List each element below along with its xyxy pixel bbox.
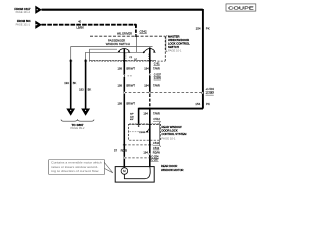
svg-text:DOOR LOCK: DOOR LOCK [162, 129, 178, 133]
svg-text:BR/WT: BR/WT [126, 66, 135, 70]
label REAR DOOR WINDOW MOTOR [161, 164, 184, 172]
label 193 BK wire2 [79, 87, 91, 91]
svg-text:1C: 1C [134, 59, 137, 61]
svg-text:C510: C510 [153, 141, 160, 145]
svg-text:199: 199 [118, 102, 123, 106]
wire left arrow drop 2 [85, 60, 87, 110]
wire feed B corner patch [134, 25, 136, 28]
motor box [115, 167, 154, 183]
wire motor feed left (x=124.3) [123, 49, 125, 92]
rear window control box dashed [129, 124, 161, 140]
rear box internal contact [130, 125, 150, 134]
svg-text:PAGE 10-1: PAGE 10-1 [162, 137, 176, 141]
svg-text:ing to direction of current fl: ing to direction of current flow. [51, 170, 99, 173]
label 57 RD/B bottom row left wire [114, 149, 127, 153]
svg-text:BR/WT: BR/WT [126, 83, 135, 87]
switch internal bus 3 (pin drop) [90, 49, 117, 61]
pin ticks [123, 144, 151, 146]
pivot dot [143, 51, 145, 53]
wire feed B dashed 40 LB/BK [42, 24, 136, 26]
svg-text:REAR DOOR: REAR DOOR [161, 164, 177, 168]
label 154 PK lower [195, 102, 210, 106]
svg-text:C-507: C-507 [154, 72, 162, 76]
brace for master switch text [165, 35, 168, 51]
switch contact arm 1 (left window) [117, 49, 130, 53]
label MASTER WINDOW/DOOR LOCK CONTROL SWITCH [168, 35, 190, 53]
svg-text:194: 194 [143, 150, 148, 154]
svg-text:193: 193 [64, 81, 69, 85]
svg-text:C512: C512 [153, 146, 160, 150]
svg-text:PAGE 99-2: PAGE 99-2 [71, 126, 85, 130]
svg-text:PAGE 10-1: PAGE 10-1 [168, 49, 182, 53]
svg-text:BK: BK [88, 87, 92, 91]
svg-text:57: 57 [114, 149, 117, 153]
svg-text:C512: C512 [153, 117, 160, 121]
svg-text:raises or lowers window accord: raises or lowers window accord- [51, 166, 98, 169]
switch internal bus 2 [86, 52, 144, 60]
node TO S867 label [71, 123, 85, 130]
dashed connector row C-254/C-287 [124, 157, 150, 159]
label 40 LB/BK [76, 20, 84, 30]
svg-text:C-81: C-81 [154, 61, 160, 65]
label 194 RD/W bottom row right wire [143, 150, 160, 154]
svg-text:W/L DRIVER: W/L DRIVER [117, 32, 132, 36]
svg-text:RD/B: RD/B [121, 149, 128, 153]
svg-text:‹C-287: ‹C-287 [150, 158, 159, 162]
svg-text:‹C-504: ‹C-504 [206, 87, 215, 91]
svg-text:PK: PK [206, 26, 210, 30]
svg-text:BR/WT: BR/WT [126, 102, 135, 106]
svg-text:RD/W: RD/W [153, 150, 161, 154]
linkage dashes under arms [125, 53, 127, 59]
wire thick return line [139, 108, 203, 110]
svg-text:194: 194 [144, 83, 149, 87]
brace for rear box text [159, 122, 161, 147]
svg-text:40: 40 [78, 20, 81, 24]
wire feed B turn down [135, 25, 137, 36]
wire feed A horizontal 154 PK [42, 9, 203, 11]
svg-text:PAGE 101-1: PAGE 101-1 [16, 22, 31, 26]
label 194 T/WR row3 [143, 111, 160, 115]
label 194 T/WR row2 [144, 83, 160, 87]
in-line connector hook on right wire + labels C-507 C-570 [149, 72, 162, 80]
brace under arrows [61, 119, 94, 121]
label 199 BR/WT row3 [118, 102, 136, 106]
svg-text:BK: BK [73, 81, 77, 85]
svg-text:CONTROL SYSTEM: CONTROL SYSTEM [162, 132, 188, 136]
note callout box [49, 160, 113, 175]
svg-text:T/WR: T/WR [153, 83, 160, 87]
svg-text:199: 199 [118, 66, 123, 70]
dashed connector line C-504/C-557 [124, 92, 202, 94]
connector dots on dashed line [123, 92, 125, 94]
svg-text:194: 194 [143, 111, 148, 115]
switch box dashed outline (passenger window switch / master) [90, 36, 165, 61]
label 199 BR/WT row1 [118, 66, 136, 70]
connector C542 label [140, 29, 148, 33]
svg-text:193: 193 [79, 87, 84, 91]
svg-text:Contains a reversible motor wh: Contains a reversible motor which [51, 162, 102, 165]
wire left arrow drop 1 [70, 60, 72, 110]
switch internal bus 1 [71, 47, 153, 60]
svg-text:154: 154 [195, 102, 200, 106]
label 199 BR/WT row2 [118, 83, 136, 87]
pin ticks at box edges [69, 36, 151, 124]
tiny stacked note left of stub [130, 114, 134, 122]
svg-text:C2069: C2069 [139, 132, 146, 134]
label 194 T/WR row1 [144, 66, 160, 70]
svg-text:REAR WINDOW: REAR WINDOW [162, 125, 182, 129]
label REAR WINDOW DOOR LOCK CONTROL SYSTEM [162, 125, 188, 141]
wire stub down from return corner [138, 108, 140, 125]
switch feed drop from C542 pin [135, 36, 137, 52]
svg-text:COUPE: COUPE [228, 6, 254, 11]
svg-text:S/P: S/P [130, 114, 134, 116]
COUPE box [226, 4, 256, 11]
svg-text:T/WR: T/WR [153, 111, 160, 115]
connector arrow B (dashed feed) [35, 21, 42, 29]
switch contact arm 2 (right window) [144, 49, 156, 53]
svg-text:SWITCH: SWITCH [168, 45, 179, 49]
wire motor feed right (x=149.8) [149, 47, 151, 91]
connector arrow A (solid feed) [35, 6, 42, 14]
svg-text:199: 199 [118, 83, 123, 87]
svg-text:T/WR: T/WR [153, 66, 160, 70]
svg-text:WINDOW/DOOR: WINDOW/DOOR [168, 38, 189, 42]
dashed connector row C510/C512 [124, 144, 153, 146]
label PASSENGER WINDOW SWITCH [106, 39, 130, 47]
ground arrowhead 1 [66, 109, 75, 116]
svg-text:MASTER: MASTER [168, 35, 179, 39]
svg-text:LOCK CONTROL: LOCK CONTROL [168, 42, 190, 46]
motor internal path [124, 167, 150, 179]
svg-text:194: 194 [144, 66, 149, 70]
svg-text:WINDOW SWITCH: WINDOW SWITCH [106, 42, 130, 46]
svg-text:WINDOW MOTOR: WINDOW MOTOR [161, 168, 184, 172]
labels C-254 C-287 [150, 154, 159, 161]
ground arrowhead 2 [81, 109, 90, 116]
node FROM C117 label [14, 7, 30, 14]
svg-text:PAGE 101-4: PAGE 101-4 [16, 10, 31, 14]
labels C-504 C-557 [206, 87, 215, 95]
svg-text:PK: PK [206, 102, 210, 106]
node FROM 504 label [16, 19, 31, 26]
svg-text:154: 154 [196, 26, 201, 30]
switch box bottom connector row [90, 60, 166, 61]
svg-text:LB/BK: LB/BK [76, 26, 84, 30]
label 154 PK upper [196, 26, 210, 30]
wire right bus bar vertical [202, 9, 204, 109]
svg-text:C-570: C-570 [154, 76, 162, 80]
in-line connector hook on left wire [123, 74, 132, 77]
svg-text:‹C-557: ‹C-557 [206, 91, 215, 95]
label 193 BK wire1 [64, 81, 76, 85]
svg-text:C542: C542 [140, 29, 148, 33]
motor circle M [121, 168, 128, 175]
